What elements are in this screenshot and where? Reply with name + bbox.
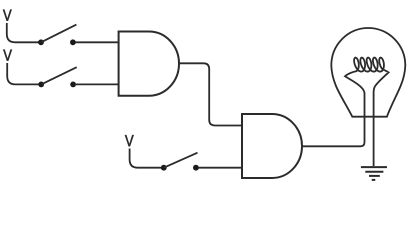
wire S3 to AND2 input B bbox=[199, 167, 243, 169]
ground bar 4 bbox=[372, 179, 376, 181]
and-gate U1 bbox=[119, 32, 179, 96]
ground bar 3 bbox=[369, 175, 380, 177]
wire U1 output to U2 input A bbox=[179, 63, 242, 125]
ground bar 2 bbox=[365, 171, 383, 173]
node V3 label bbox=[125, 135, 134, 147]
switch S1 throw dot bbox=[70, 39, 76, 45]
switch S2 blade bbox=[41, 67, 76, 84]
wire S1 to AND1 input A bbox=[76, 41, 119, 43]
switch S1 blade bbox=[41, 25, 76, 43]
switch S3 pole dot bbox=[161, 165, 167, 171]
lamp DS1 glass envelope bbox=[331, 28, 405, 117]
wire V1 to switch S1 bbox=[7, 23, 39, 42]
switch S2 pole dot bbox=[38, 82, 44, 88]
switch S3 blade bbox=[164, 153, 198, 168]
switch S3 throw dot bbox=[193, 165, 199, 171]
wire V2 to switch S2 bbox=[7, 63, 39, 84]
switch S1 pole dot bbox=[38, 39, 44, 45]
node V1 label bbox=[3, 9, 12, 21]
wire S2 to AND1 input B bbox=[76, 83, 119, 85]
node V2 label bbox=[3, 49, 12, 61]
ground bar 1 bbox=[361, 166, 387, 168]
switch S2 throw dot bbox=[70, 82, 76, 88]
and-gate U2 bbox=[242, 114, 302, 178]
lamp filament and leads (U2 output to ground) bbox=[302, 58, 389, 167]
wire V3 to switch S3 bbox=[130, 149, 162, 168]
